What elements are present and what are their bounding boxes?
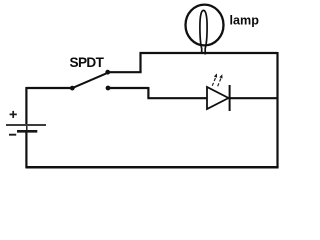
wire lower throw horizontal	[108, 87, 148, 89]
switch upper throw terminal dot	[105, 70, 110, 75]
wire LED anode side	[147, 97, 207, 99]
battery positive plate	[6, 124, 46, 126]
wire switch common horizontal	[26, 87, 72, 89]
wire upper throw horizontal	[108, 71, 142, 73]
battery minus sign	[9, 134, 16, 136]
switch lower throw terminal dot	[106, 86, 111, 91]
wire lower throw drop	[147, 87, 149, 98]
battery plus sign	[10, 111, 17, 118]
wire between battery plates	[26, 124, 28, 131]
LED emission arrow 1 head	[214, 73, 217, 77]
svg-text:SPDT: SPDT	[70, 55, 105, 70]
wire right vertical	[276, 52, 278, 167]
LED emission arrow 2 head	[219, 74, 222, 78]
wire LED cathode side	[230, 97, 278, 99]
switch arm	[72, 74, 106, 89]
lamp filament loop	[200, 10, 207, 54]
switch common terminal dot	[70, 86, 75, 91]
svg-text:lamp: lamp	[230, 14, 260, 28]
LED D1 triangle (anode)	[207, 87, 229, 109]
wire bottom horizontal	[26, 166, 279, 169]
wire top horizontal	[140, 52, 278, 54]
battery negative plate	[17, 130, 37, 133]
LED cathode bar	[229, 85, 231, 111]
lamp bulb circle	[186, 5, 224, 46]
wire battery negative lead	[25, 131, 27, 168]
LED emission arrow 1 shaft	[212, 77, 216, 86]
wire top-left drop to upper throw	[139, 52, 141, 72]
wire battery positive lead	[25, 87, 27, 125]
LED emission arrow 2 shaft	[218, 78, 222, 87]
